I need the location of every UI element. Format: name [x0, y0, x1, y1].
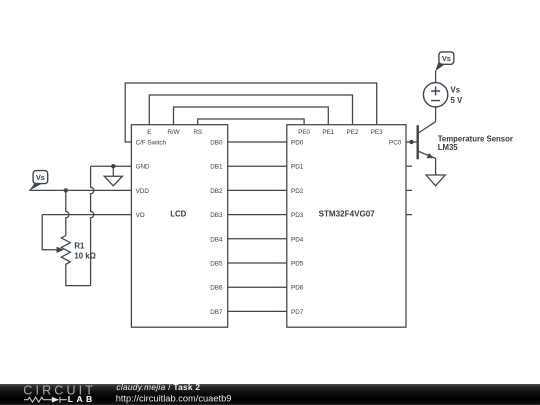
svg-text:STM32F4VG07: STM32F4VG07	[319, 210, 376, 219]
svg-text:PE1: PE1	[322, 129, 334, 136]
svg-text:R/W: R/W	[167, 129, 179, 136]
svg-text:PD2: PD2	[291, 188, 304, 195]
svg-text:PE3: PE3	[371, 129, 383, 136]
svg-text:RS: RS	[193, 129, 202, 136]
svg-text:http://circuitlab.com/cuaetb9: http://circuitlab.com/cuaetb9	[116, 393, 232, 403]
svg-text:DB4: DB4	[210, 236, 223, 243]
svg-text:E: E	[147, 129, 151, 136]
svg-text:PD5: PD5	[291, 261, 304, 268]
svg-text:DB7: DB7	[210, 309, 223, 316]
svg-text:VO: VO	[136, 212, 145, 219]
svg-text:PD6: PD6	[291, 285, 304, 292]
svg-text:5 V: 5 V	[451, 96, 464, 105]
svg-text:LAB: LAB	[68, 394, 96, 404]
svg-text:PD4: PD4	[291, 236, 304, 243]
svg-text:LCD: LCD	[170, 210, 186, 219]
svg-text:PD3: PD3	[291, 212, 304, 219]
svg-text:PC0: PC0	[389, 140, 402, 147]
svg-text:LM35: LM35	[438, 143, 459, 152]
svg-text:C/F Switch: C/F Switch	[136, 140, 167, 147]
svg-text:PD7: PD7	[291, 309, 304, 316]
svg-text:Vs: Vs	[36, 173, 45, 182]
svg-text:DB1: DB1	[210, 164, 223, 171]
svg-text:PE2: PE2	[347, 129, 359, 136]
svg-text:Vs: Vs	[442, 54, 451, 63]
svg-text:PE0: PE0	[298, 129, 310, 136]
svg-text:DB3: DB3	[210, 212, 223, 219]
svg-text:R1: R1	[74, 242, 85, 251]
svg-text:PD1: PD1	[291, 164, 304, 171]
svg-text:Vs: Vs	[451, 86, 461, 95]
svg-text:10 kΩ: 10 kΩ	[74, 252, 95, 261]
svg-text:DB0: DB0	[210, 140, 223, 147]
svg-text:DB2: DB2	[210, 188, 223, 195]
svg-text:DB6: DB6	[210, 285, 223, 292]
svg-text:DB5: DB5	[210, 261, 223, 268]
svg-text:claudy.mejia / Task 2: claudy.mejia / Task 2	[116, 382, 200, 392]
svg-text:GND: GND	[136, 164, 150, 171]
svg-text:VDD: VDD	[136, 188, 150, 195]
svg-text:PD0: PD0	[291, 140, 304, 147]
